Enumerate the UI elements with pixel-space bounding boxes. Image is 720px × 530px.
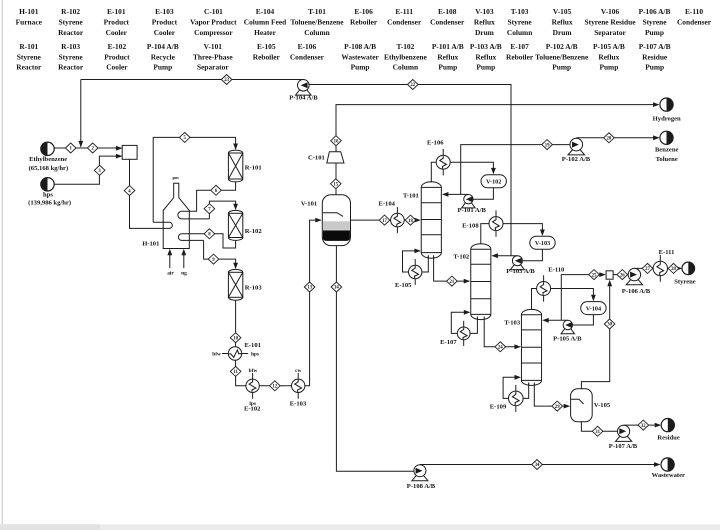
svg-text:Ethylbenzene: Ethylbenzene <box>384 52 427 61</box>
page bottom gray strip <box>0 524 720 530</box>
wire E-106 to V-102 reflux drum <box>450 162 496 174</box>
svg-text:Styrene: Styrene <box>59 18 84 27</box>
svg-text:air: air <box>167 270 174 276</box>
heat exchanger E-110 condenser <box>537 275 551 301</box>
wire P-107 discharge to residue outlet <box>624 423 662 428</box>
wire P-102 discharge to benzene toluene outlet <box>576 135 659 140</box>
svg-text:26: 26 <box>620 273 625 278</box>
wire P-101 reflux into T-101 <box>442 192 469 197</box>
svg-text:Vapor Product: Vapor Product <box>190 18 237 27</box>
svg-text:Drum: Drum <box>553 28 573 37</box>
stream 28 diamond <box>668 263 679 273</box>
svg-text:Column: Column <box>304 28 329 37</box>
header legend row 2 <box>16 42 670 72</box>
svg-text:24: 24 <box>498 346 503 351</box>
wire V-104 to P-105 suction <box>573 315 594 325</box>
heat exchanger E-105 reboiler <box>409 259 422 285</box>
styrene mixing box <box>606 271 613 279</box>
svg-text:V-101: V-101 <box>204 42 223 51</box>
pump P-103 A/B <box>510 256 524 270</box>
wire hps steam to mixer <box>54 156 121 184</box>
svg-text:E-108: E-108 <box>462 222 479 229</box>
wire stream 8 R-102 to furnace pass 3 <box>182 234 236 248</box>
wire ethylbenzene feed to mixer <box>54 147 121 149</box>
hydrogen product marker <box>660 98 673 111</box>
wire V-105 vapor up to styrene mixing box <box>581 280 612 389</box>
header legend row 1 <box>16 7 712 37</box>
svg-text:Ethylbenzene: Ethylbenzene <box>29 156 67 163</box>
svg-text:P-108 A/B: P-108 A/B <box>344 42 376 51</box>
stream 13 diamond <box>304 282 315 292</box>
svg-text:16: 16 <box>334 139 339 144</box>
svg-text:E-103: E-103 <box>290 400 307 407</box>
heat exchanger E-106 condenser <box>436 149 450 175</box>
svg-text:20: 20 <box>607 137 612 142</box>
svg-text:Toluene/Benzene: Toluene/Benzene <box>290 18 344 27</box>
stream 1 diamond <box>65 143 76 153</box>
wire stream 21 T-101 bottoms to T-102 feed <box>434 257 471 284</box>
stream 9 diamond <box>208 254 219 264</box>
svg-text:E-104: E-104 <box>256 7 275 16</box>
svg-text:Separator: Separator <box>197 63 229 72</box>
pump P-106 A/B <box>626 268 642 284</box>
svg-text:31: 31 <box>595 430 600 435</box>
column T-101 <box>421 182 441 258</box>
stream 25 diamond <box>589 270 600 280</box>
T-102 bottom skirt <box>477 317 484 320</box>
svg-text:Reactor: Reactor <box>58 63 84 72</box>
svg-text:Styrene: Styrene <box>59 52 84 61</box>
wire T-101 bottoms to reboiler E-105 <box>422 257 429 273</box>
stream 29 diamond <box>552 401 563 411</box>
svg-text:C-101: C-101 <box>204 7 223 16</box>
stream 23 diamond <box>221 75 232 85</box>
pump P-107 A/B <box>616 425 632 441</box>
pump P-102 A/B <box>568 138 585 155</box>
svg-text:P-106 A/B: P-106 A/B <box>639 7 671 16</box>
svg-text:Residue: Residue <box>657 435 679 442</box>
svg-text:Furnace: Furnace <box>16 18 43 27</box>
svg-text:Toluene: Toluene <box>656 156 678 163</box>
column T-102 <box>471 244 491 320</box>
wire T-103 overhead to E-110 <box>532 289 537 311</box>
ethylbenzene feed marker <box>41 142 54 155</box>
svg-text:27: 27 <box>645 267 650 272</box>
stream 10 diamond <box>230 333 241 343</box>
benzene toluene product marker <box>660 131 673 144</box>
wire P-104 discharge recycle to feed junction <box>81 79 303 81</box>
svg-text:Cooler: Cooler <box>154 28 176 37</box>
wire E-105 return to T-101 <box>403 249 421 273</box>
wire P-103 reflux into T-102 <box>491 253 517 258</box>
furnace pass 2 U-tube <box>178 211 209 219</box>
svg-text:28: 28 <box>671 267 676 272</box>
wire R-103 to E-101 to E-102 <box>236 300 246 386</box>
reflux drum V-104 <box>581 302 606 315</box>
wire stream 14 E-103 to V-101 <box>305 218 322 386</box>
svg-text:10: 10 <box>233 336 238 341</box>
svg-text:Three-Phase: Three-Phase <box>193 52 233 61</box>
svg-text:P-102 A/B: P-102 A/B <box>546 42 578 51</box>
svg-text:Condenser: Condenser <box>430 18 465 27</box>
svg-text:Cooler: Cooler <box>106 28 128 37</box>
svg-text:34: 34 <box>535 463 540 468</box>
reactor R-102 <box>228 210 242 240</box>
wire stream 9 furnace to R-103 <box>204 240 238 269</box>
wire V-105 bottoms to P-107 <box>581 422 617 432</box>
svg-text:P-108 A/B: P-108 A/B <box>407 483 436 490</box>
wire T-103 distillate riser to styrene mixing box <box>561 272 606 320</box>
stream 30 diamond <box>604 319 615 329</box>
svg-text:32: 32 <box>641 424 646 429</box>
svg-text:P-105 A/B: P-105 A/B <box>553 335 582 342</box>
svg-text:T-102: T-102 <box>396 42 414 51</box>
stream 18 diamond <box>405 215 416 225</box>
heat exchanger E-104 <box>391 207 405 233</box>
svg-text:E-109: E-109 <box>490 403 507 410</box>
svg-text:Toluene/Benzene: Toluene/Benzene <box>535 52 589 61</box>
svg-text:E-111: E-111 <box>395 7 413 16</box>
svg-text:Hydrogen: Hydrogen <box>653 115 681 122</box>
svg-text:Styrene: Styrene <box>17 52 42 61</box>
reactor R-101 <box>228 150 242 182</box>
svg-text:P-104 A/B: P-104 A/B <box>289 95 318 102</box>
stream 16 diamond <box>331 136 342 146</box>
svg-text:Pump: Pump <box>351 63 370 72</box>
separator V-105 <box>571 389 593 422</box>
stream 21 diamond <box>447 276 458 286</box>
stream 7 diamond <box>204 204 215 214</box>
svg-text:P-101 A/B: P-101 A/B <box>458 207 487 214</box>
svg-text:25: 25 <box>592 273 597 278</box>
stream 31 diamond <box>592 426 603 436</box>
svg-text:Recycle: Recycle <box>151 52 176 61</box>
svg-text:E-106: E-106 <box>354 7 373 16</box>
svg-text:T-102: T-102 <box>453 254 470 261</box>
svg-text:Reflux: Reflux <box>598 52 619 61</box>
wire V-103 to P-103 suction <box>523 249 543 260</box>
wire V-102 to P-101 suction <box>473 188 493 199</box>
heat exchanger E-109 reboiler <box>509 385 524 412</box>
page left edge <box>2 0 3 524</box>
mixer box feed <box>116 145 137 159</box>
svg-text:T-103: T-103 <box>504 320 521 327</box>
svg-text:Condenser: Condenser <box>387 18 422 27</box>
heat exchanger E-107 reboiler <box>457 321 470 346</box>
svg-text:E-102: E-102 <box>108 42 127 51</box>
wire T-102 recycle riser to P-104 suction <box>309 85 511 256</box>
svg-text:C-101: C-101 <box>308 154 325 161</box>
furnace pass 3 U-tube <box>178 234 203 241</box>
svg-text:Separator: Separator <box>594 28 626 37</box>
T-103 bottom skirt <box>529 382 535 385</box>
svg-text:E-110: E-110 <box>548 267 565 274</box>
wire T-101 overhead to E-106 <box>431 162 436 182</box>
heat exchanger E-101 <box>222 347 248 360</box>
svg-text:bfw: bfw <box>249 368 258 374</box>
svg-text:(139,986 kg/hr): (139,986 kg/hr) <box>28 199 71 206</box>
svg-text:E-106: E-106 <box>298 42 317 51</box>
svg-text:ng: ng <box>181 270 187 276</box>
svg-text:P-106 A/B: P-106 A/B <box>622 288 651 295</box>
svg-text:12: 12 <box>272 385 277 390</box>
svg-text:Heater: Heater <box>254 28 276 37</box>
wire E-108 to V-103 reflux drum <box>503 224 545 236</box>
svg-text:E-103: E-103 <box>155 7 174 16</box>
wire recycle vertical into feed junction <box>78 80 83 148</box>
stream 3 diamond <box>94 165 105 175</box>
svg-text:Reflux: Reflux <box>475 52 496 61</box>
svg-text:Pump: Pump <box>552 63 571 72</box>
stream 8 diamond <box>204 229 215 239</box>
wire stream 29 T-103 bottoms to V-105 <box>534 384 570 409</box>
stream 34 diamond <box>532 460 543 470</box>
svg-text:V-106: V-106 <box>601 7 620 16</box>
svg-text:E-107: E-107 <box>510 42 529 51</box>
svg-text:V-103: V-103 <box>535 240 550 247</box>
svg-text:E-107: E-107 <box>440 339 457 346</box>
svg-text:22: 22 <box>410 83 415 88</box>
svg-text:H-101: H-101 <box>19 7 39 16</box>
wire stream 24 T-102 bottoms to T-103 feed <box>484 319 521 350</box>
svg-text:17: 17 <box>382 219 387 224</box>
svg-text:P-107 A/B: P-107 A/B <box>639 42 671 51</box>
svg-text:Product: Product <box>104 52 130 61</box>
svg-text:lps: lps <box>249 401 256 407</box>
svg-text:Reflux: Reflux <box>474 18 495 27</box>
wire E-110 to V-104 reflux drum <box>551 289 596 302</box>
wire T-103 bottoms to reboiler E-109 <box>523 384 529 399</box>
wire stream 5 furnace to R-101 <box>153 137 238 222</box>
svg-text:Product: Product <box>152 18 178 27</box>
svg-text:Wastewater: Wastewater <box>652 472 685 479</box>
svg-text:P-102 A/B: P-102 A/B <box>562 156 591 163</box>
svg-text:P-107 A/B: P-107 A/B <box>609 443 638 450</box>
stream 27 diamond <box>642 263 653 273</box>
stream 12 diamond <box>270 381 281 391</box>
heat exchanger E-108 condenser <box>489 210 503 236</box>
svg-text:Pump: Pump <box>476 63 495 72</box>
pump P-101 A/B <box>462 195 475 208</box>
svg-text:30: 30 <box>607 323 612 328</box>
svg-text:E-106: E-106 <box>427 140 444 147</box>
svg-text:Wastewater: Wastewater <box>341 52 379 61</box>
svg-text:E-108: E-108 <box>438 7 457 16</box>
pump P-104 A/B <box>296 80 312 96</box>
stream 4 diamond <box>124 186 135 196</box>
stream 17 diamond <box>379 215 390 225</box>
svg-text:Styrene Residue: Styrene Residue <box>585 18 637 27</box>
wire T-102 bottoms to reboiler E-107 <box>470 318 477 333</box>
svg-text:cw: cw <box>295 368 301 374</box>
furnace pass 1 U-tube <box>153 222 172 228</box>
svg-text:(65,168 kg/hr): (65,168 kg/hr) <box>29 165 69 172</box>
svg-text:Reflux: Reflux <box>552 18 573 27</box>
wire stream 16 C-101 to hydrogen outlet <box>336 102 660 152</box>
svg-text:Styrene: Styrene <box>508 18 533 27</box>
svg-text:Condenser: Condenser <box>290 52 325 61</box>
svg-text:Reboiler: Reboiler <box>253 52 281 61</box>
stream 32 diamond <box>638 420 649 430</box>
stream 6 diamond <box>211 185 222 195</box>
svg-text:R-102: R-102 <box>61 7 80 16</box>
stream 22 diamond <box>408 80 419 90</box>
pump P-108 A/B <box>412 465 428 481</box>
compressor C-101 <box>327 152 344 163</box>
heat exchanger E-111 <box>653 255 667 282</box>
svg-text:Column: Column <box>507 28 532 37</box>
svg-text:Drum: Drum <box>475 28 495 37</box>
svg-text:hps: hps <box>251 352 259 358</box>
heat exchanger E-102 <box>246 373 259 399</box>
svg-text:Pump: Pump <box>645 63 664 72</box>
svg-text:Column Feed: Column Feed <box>244 18 287 27</box>
svg-text:Reactor: Reactor <box>58 28 84 37</box>
svg-text:V-104: V-104 <box>586 305 601 312</box>
svg-text:Reactor: Reactor <box>16 63 42 72</box>
svg-text:E-104: E-104 <box>378 201 395 208</box>
svg-text:Compressor: Compressor <box>194 28 233 37</box>
svg-text:R-103: R-103 <box>245 284 263 291</box>
svg-text:P-103 A/B: P-103 A/B <box>470 42 502 51</box>
reflux drum V-103 <box>530 236 555 249</box>
wire stream 7 furnace to R-102 <box>209 201 238 219</box>
three-phase separator V-101 <box>322 195 350 246</box>
stream 14 diamond <box>331 282 342 292</box>
T-101 bottom skirt <box>428 255 433 258</box>
svg-text:P-101 A/B: P-101 A/B <box>432 42 464 51</box>
wire P-108 discharge to wastewater outlet <box>420 462 661 467</box>
svg-text:Reflux: Reflux <box>437 52 458 61</box>
svg-text:Pump: Pump <box>438 63 457 72</box>
wire V-101 water to P-108 <box>336 245 414 471</box>
svg-text:R-102: R-102 <box>245 228 263 235</box>
svg-text:Pump: Pump <box>599 63 618 72</box>
svg-text:19: 19 <box>545 143 550 148</box>
stream 19 diamond <box>542 140 553 150</box>
svg-text:11: 11 <box>233 370 238 375</box>
stream 15 diamond <box>331 179 342 189</box>
svg-text:R-101: R-101 <box>245 164 262 171</box>
wire P-106 discharge through E-111 to styrene outlet <box>634 266 682 271</box>
wire E-109 return to T-103 <box>503 375 521 399</box>
stream 5 diamond <box>179 132 190 142</box>
svg-text:E-111: E-111 <box>659 249 675 256</box>
reactor R-103 <box>228 269 242 300</box>
svg-text:V-103: V-103 <box>475 7 494 16</box>
svg-text:Column: Column <box>393 63 418 72</box>
svg-text:bfw: bfw <box>212 352 221 358</box>
stream 2 diamond <box>87 143 98 153</box>
wire styrene box to P-106 suction <box>613 274 628 276</box>
wire V-101 vapor to C-101 <box>335 163 337 195</box>
wire mixer outlet stream 4 to furnace pass 1 <box>130 159 167 228</box>
svg-text:Pump: Pump <box>645 28 664 37</box>
svg-text:21: 21 <box>450 280 455 285</box>
wire air into furnace <box>167 249 172 268</box>
stream 26 diamond <box>617 270 628 280</box>
svg-text:18: 18 <box>408 219 413 224</box>
svg-text:T-101: T-101 <box>308 7 326 16</box>
svg-text:Styrene: Styrene <box>674 278 696 285</box>
svg-text:T-103: T-103 <box>511 7 529 16</box>
svg-text:T-101: T-101 <box>403 193 419 200</box>
svg-text:29: 29 <box>555 405 560 410</box>
svg-text:Reboiler: Reboiler <box>350 18 378 27</box>
svg-text:R-103: R-103 <box>61 42 80 51</box>
svg-text:Benzene: Benzene <box>655 147 679 154</box>
svg-text:Styrene: Styrene <box>642 18 667 27</box>
wire E-102 to E-103 <box>259 385 291 387</box>
wire T-101 distillate riser to P-102 suction <box>461 145 571 195</box>
wire T-102 overhead to E-108 <box>481 224 489 245</box>
svg-text:Cooler: Cooler <box>106 63 128 72</box>
svg-text:Residue: Residue <box>642 52 668 61</box>
wastewater product marker <box>661 458 674 471</box>
svg-text:E-101: E-101 <box>244 342 260 349</box>
svg-text:Reboiler: Reboiler <box>506 52 534 61</box>
svg-text:14: 14 <box>334 286 339 291</box>
wire ng into furnace <box>181 249 186 268</box>
hps feed marker <box>41 178 54 191</box>
heat exchanger E-103 <box>292 373 305 399</box>
svg-text:23: 23 <box>224 78 229 83</box>
stream 20 diamond <box>604 133 615 143</box>
svg-text:P-105 A/B: P-105 A/B <box>593 42 625 51</box>
svg-text:R-101: R-101 <box>19 42 38 51</box>
stream 11 diamond <box>230 366 241 376</box>
svg-text:V-101: V-101 <box>301 201 317 208</box>
svg-text:Condenser: Condenser <box>677 18 712 27</box>
reflux drum V-102 <box>481 175 506 188</box>
svg-text:poc: poc <box>172 175 179 180</box>
wire stream 6 R-101 to furnace pass 2 <box>182 182 236 211</box>
svg-text:H-101: H-101 <box>142 240 159 247</box>
svg-text:V-105: V-105 <box>553 7 572 16</box>
svg-text:E-110: E-110 <box>685 7 703 16</box>
svg-text:hps: hps <box>43 191 53 198</box>
svg-text:15: 15 <box>333 183 338 188</box>
column T-103 <box>521 309 541 385</box>
wire V-101 organic to E-104 and T-101 feed <box>351 218 421 223</box>
residue product marker <box>661 419 674 432</box>
svg-text:P-104 A/B: P-104 A/B <box>147 42 179 51</box>
pump P-105 A/B <box>561 320 574 333</box>
svg-text:E-105: E-105 <box>395 282 412 289</box>
svg-text:Pump: Pump <box>153 63 172 72</box>
svg-text:P-103 A/B: P-103 A/B <box>506 268 535 275</box>
wire P-105 reflux into T-103 <box>542 318 568 323</box>
stream 24 diamond <box>495 342 506 352</box>
svg-text:E-101: E-101 <box>107 7 126 16</box>
svg-text:V-102: V-102 <box>486 179 501 186</box>
svg-text:E-105: E-105 <box>257 42 276 51</box>
svg-text:13: 13 <box>307 286 312 291</box>
svg-text:Product: Product <box>104 18 130 27</box>
styrene product marker <box>682 262 695 275</box>
wire E-107 return to T-102 <box>451 310 470 334</box>
furnace H-101 <box>163 183 189 248</box>
svg-text:V-105: V-105 <box>594 402 611 409</box>
